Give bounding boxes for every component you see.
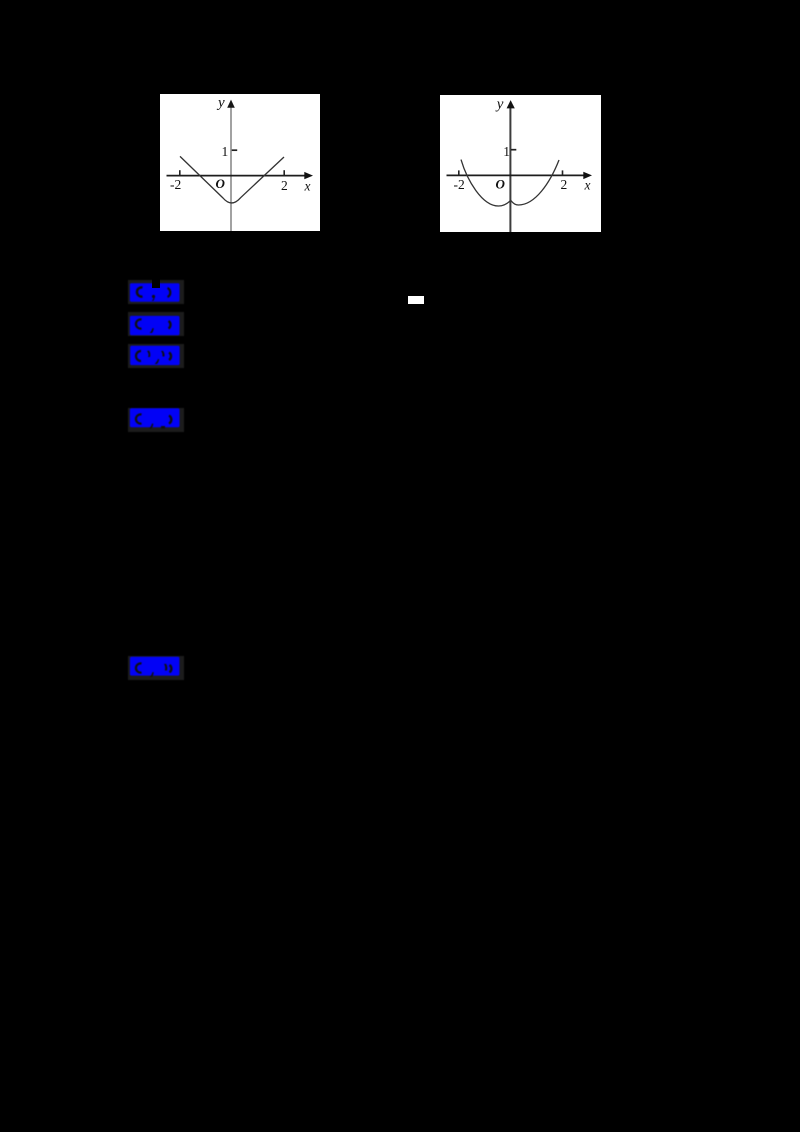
svg-text:2: 2 [281,178,288,193]
svg-text:1: 1 [222,144,229,159]
svg-text:2: 2 [561,177,568,192]
svg-text:O: O [216,176,226,191]
svg-text:-2: -2 [170,177,181,192]
svg-text:O: O [496,177,506,192]
svg-text:y: y [495,96,504,112]
svg-text:x: x [584,177,591,192]
svg-text:-2: -2 [454,177,465,192]
svg-text:x: x [304,178,311,193]
svg-text:1: 1 [503,144,510,159]
svg-text:y: y [216,95,225,111]
